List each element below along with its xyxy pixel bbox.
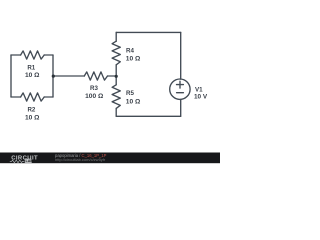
svg-text:10 Ω: 10 Ω <box>25 114 40 121</box>
node A junction dot <box>52 75 55 78</box>
footer logo and credits <box>10 153 107 163</box>
wire branch top lead <box>115 32 117 41</box>
resistor R1 <box>21 51 45 59</box>
svg-text:10 Ω: 10 Ω <box>126 55 141 62</box>
resistor R5 <box>112 85 120 109</box>
svg-text:10 Ω: 10 Ω <box>25 72 40 79</box>
footer logo resistor zigzag <box>10 160 24 163</box>
footer logo LAB box <box>25 159 32 163</box>
svg-text:100 Ω: 100 Ω <box>85 93 104 100</box>
wire left loop bottom-left segment <box>11 96 21 98</box>
wire left loop left edge <box>10 55 12 97</box>
wire left loop top-right segment <box>44 54 53 56</box>
V1 plus sign <box>177 81 184 88</box>
svg-text:http://circuitlab.com/c/zw5yfr: http://circuitlab.com/c/zw5yfr <box>55 157 106 162</box>
svg-text:R4: R4 <box>126 48 134 55</box>
svg-text:R1: R1 <box>27 64 35 71</box>
footer bar <box>0 153 220 164</box>
svg-text:10 V: 10 V <box>194 94 208 101</box>
resistor R2 <box>21 93 45 101</box>
wire middle horizontal <box>53 75 84 77</box>
V1 minus sign <box>177 92 184 94</box>
svg-text:LAB: LAB <box>26 159 34 163</box>
wire left loop top-left segment <box>11 54 21 56</box>
wire R3 to node B <box>108 75 117 77</box>
resistor R3 <box>84 72 107 80</box>
wire right loop top rail <box>116 31 181 33</box>
wire R5 bottom lead <box>115 108 117 116</box>
voltage source V1 <box>170 79 190 99</box>
svg-text:V1: V1 <box>195 86 203 93</box>
wire V1 bottom lead <box>180 99 182 116</box>
wire left loop right edge <box>52 55 54 97</box>
svg-text:R3: R3 <box>90 85 98 92</box>
wire V1 top lead <box>180 32 182 79</box>
resistor R4 <box>112 41 120 65</box>
wire left loop bottom-right segment <box>44 96 53 98</box>
node B junction dot <box>115 75 118 78</box>
wire R4 to node B <box>115 65 117 85</box>
svg-text:10 Ω: 10 Ω <box>126 99 141 106</box>
svg-text:R2: R2 <box>27 107 35 114</box>
wire right loop bottom rail <box>116 115 181 117</box>
svg-text:R5: R5 <box>126 90 134 97</box>
